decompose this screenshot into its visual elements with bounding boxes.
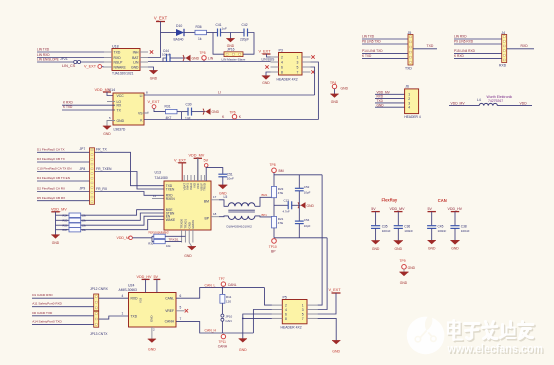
wire BP to choke: [219, 215, 228, 218]
U18 pin TXD: [104, 51, 112, 53]
svg-text:4: 4: [122, 294, 124, 298]
ground after C51: [218, 185, 227, 189]
wire D3 FlexRay0 CB TX: [37, 161, 90, 163]
resistor R25 10k: [56, 219, 70, 221]
P3 pin row 2: [271, 61, 279, 63]
svg-text:K TXD: K TXD: [362, 54, 372, 58]
svg-text:R11: R11: [226, 295, 232, 299]
svg-text:1k: 1k: [198, 37, 202, 41]
svg-text:J6: J6: [405, 85, 409, 89]
svg-text:6: 6: [285, 312, 287, 316]
svg-text:CANL: CANL: [165, 297, 174, 301]
ground U14 pin5: [107, 121, 115, 127]
svg-text:FR_TXEN: FR_TXEN: [96, 167, 112, 171]
svg-text:TX: TX: [117, 109, 122, 113]
wire P5 pin7 to gnd: [318, 318, 337, 340]
svg-text:VDD: VDD: [520, 101, 528, 105]
svg-text:CAN: CAN: [438, 198, 447, 203]
wire choke top to BM term: [255, 197, 274, 206]
svg-text:ERRN: ERRN: [191, 220, 195, 228]
svg-text:5: 5: [302, 312, 304, 316]
U13 bottom pin ERRN: [192, 230, 194, 243]
wire K TXD: [362, 58, 408, 60]
wire FR_RX: [95, 192, 165, 196]
svg-text:P5: P5: [283, 295, 287, 299]
svg-text:TP9: TP9: [400, 259, 406, 263]
svg-text:P15 LIN4 RXD: P15 LIN4 RXD: [454, 49, 476, 53]
svg-text:7: 7: [297, 70, 299, 74]
svg-text:10pF: 10pF: [304, 191, 311, 195]
svg-text:47E: 47E: [278, 221, 283, 225]
svg-text:www.elecfans.com: www.elecfans.com: [447, 342, 543, 356]
svg-text:RXD: RXD: [114, 56, 122, 60]
wire cap column: [298, 175, 300, 188]
testpoint TP6 K: [234, 118, 236, 121]
ground P3 pin8: [266, 72, 271, 76]
wire LIN RXD: [454, 38, 502, 40]
U13 top pin VIO: [193, 175, 195, 181]
svg-text:HEADER 4X2: HEADER 4X2: [277, 77, 298, 81]
jumper JP10 CAN termination: [221, 314, 224, 317]
svg-text:R31: R31: [165, 105, 171, 109]
resistor R24 10k: [56, 214, 70, 216]
ground under pull-up rail: [55, 232, 57, 235]
svg-text:FlexRay: FlexRay: [382, 198, 398, 203]
wire P15 LIN4 RXD: [454, 53, 502, 55]
wire LIN net: [148, 61, 271, 63]
svg-text:NSLP: NSLP: [114, 61, 124, 65]
testpoint TP8 BM: [272, 168, 277, 173]
wire K RXD: [62, 104, 115, 106]
wire P8 LIN5 TXD: [362, 43, 408, 45]
svg-text:VDD_MV: VDD_MV: [451, 101, 466, 105]
svg-text:BAS40: BAS40: [174, 37, 184, 41]
svg-text:4.7nF: 4.7nF: [283, 210, 290, 214]
svg-text:GND: GND: [192, 57, 200, 61]
wire choke bottom to BP term: [255, 216, 274, 217]
wire FR_TX: [95, 152, 165, 185]
capacitor C44 100nF: [163, 58, 167, 62]
svg-text:WAKE: WAKE: [166, 218, 175, 222]
svg-text:7: 7: [180, 317, 182, 321]
svg-text:5: 5: [180, 305, 182, 309]
X no-connect P3 pin6: [265, 65, 268, 68]
svg-text:GND: GND: [372, 247, 380, 251]
capacitor C41 1uF: [217, 29, 219, 37]
wire P3 pin3 to K net: [311, 62, 319, 120]
svg-text:K RXD: K RXD: [454, 54, 464, 58]
svg-text:HEADER 4X2: HEADER 4X2: [281, 326, 302, 330]
U13 top pin INH2: [190, 175, 192, 181]
svg-text:VREF: VREF: [165, 309, 174, 313]
svg-text:GND: GND: [239, 348, 247, 352]
svg-text:V_EXT: V_EXT: [259, 49, 272, 53]
wire LI net: [144, 94, 315, 96]
U13 bottom pin TRXD0: [181, 230, 183, 243]
U13 top pin INH1: [187, 175, 189, 181]
svg-text:GND: GND: [150, 77, 158, 81]
testpoint TP10 BP: [272, 239, 277, 244]
svg-text:GND: GND: [377, 103, 385, 107]
wire junction down to JP16 left: [213, 33, 224, 55]
watermark logo circle: [407, 314, 445, 355]
svg-text:8: 8: [281, 70, 283, 74]
svg-text:3: 3: [302, 308, 304, 312]
ground flag after C30: [206, 108, 211, 114]
svg-text:VS: VS: [138, 112, 143, 116]
svg-text:CANL: CANL: [228, 283, 237, 287]
jumper JP21: [74, 60, 77, 63]
wire CAN_H to P5 pin4: [253, 310, 272, 334]
svg-text:100nF: 100nF: [461, 229, 470, 233]
svg-text:GND: GND: [408, 266, 416, 270]
op IC U14 L9637D: [113, 93, 144, 125]
svg-text:AMIS-30663: AMIS-30663: [119, 288, 137, 292]
resistor R23 47E: [272, 186, 277, 197]
svg-text:TXD: TXD: [427, 44, 434, 48]
P3 pin row 4: [271, 71, 279, 73]
U18 pin NSLP: [104, 61, 112, 63]
svg-text:100nF: 100nF: [438, 229, 447, 233]
capacitor C52 10pF: [295, 187, 304, 189]
wire K RXD: [454, 58, 502, 60]
wire D4 FlexRay0 CB TX EN: [37, 180, 90, 182]
svg-text:P8 LIN5 TXD: P8 LIN5 TXD: [362, 39, 381, 43]
wire P5 pin8 junction: [243, 317, 272, 319]
svg-text:LIN RXD: LIN RXD: [37, 53, 50, 57]
svg-text:R36: R36: [196, 25, 202, 29]
capacitor C30 1nF: [187, 108, 189, 116]
U13 stub RXEN: [152, 198, 164, 200]
svg-text:GND: GND: [52, 241, 60, 245]
svg-text:TP7: TP7: [219, 277, 225, 281]
svg-text:CANH: CANH: [165, 320, 175, 324]
ground under U18: [148, 67, 154, 71]
ground flag mid node: [301, 202, 306, 208]
svg-text:TRXD1: TRXD1: [169, 237, 179, 241]
svg-text:GND: GND: [331, 100, 339, 104]
testpoint TP5 LIN: [203, 60, 205, 62]
svg-text:RX: RX: [117, 104, 122, 108]
wire D1 CAN0 RXD: [32, 297, 94, 299]
svg-text:GND: GND: [212, 110, 220, 114]
svg-text:GND: GND: [184, 254, 192, 258]
svg-text:C42: C42: [242, 23, 248, 27]
svg-text:2: 2: [285, 304, 287, 308]
svg-text:JP7: JP7: [80, 147, 86, 151]
svg-text:TJA1020/1021: TJA1020/1021: [112, 72, 134, 76]
svg-text:5V: 5V: [428, 207, 433, 211]
wire K net: [144, 119, 318, 121]
svg-text:1: 1: [302, 304, 304, 308]
svg-text:TJA1080: TJA1080: [155, 176, 168, 180]
svg-text:GND: GND: [332, 349, 340, 353]
svg-text:GND: GND: [428, 247, 436, 251]
svg-text:R24: R24: [63, 213, 68, 217]
svg-text:NWAKE: NWAKE: [114, 66, 127, 70]
ground left of P5: [239, 339, 247, 343]
svg-text:C30: C30: [186, 102, 192, 106]
capacitor C51 10nF: [218, 173, 227, 175]
U13 bottom pin TRXD1: [184, 230, 186, 243]
testpoint TP11 CANH: [222, 333, 224, 334]
svg-text:4: 4: [285, 308, 287, 312]
wire BM to choke: [219, 200, 228, 207]
svg-text:GND: GND: [148, 347, 156, 351]
svg-text:JP13 CNTX: JP13 CNTX: [90, 332, 108, 336]
jumper JP13 CNTX: [94, 311, 99, 327]
svg-text:C52: C52: [304, 185, 310, 189]
wire P3 pin5 to LI net: [311, 67, 315, 95]
svg-text:LIN TXD: LIN TXD: [362, 34, 375, 38]
svg-text:11: 11: [153, 194, 156, 198]
capacitor C13 4.7nF: [287, 201, 289, 209]
wire mid node: [274, 204, 288, 206]
ground U24: [151, 327, 153, 339]
wire LIN EN/SLOPE: [37, 61, 74, 63]
svg-text:FR_TX: FR_TX: [96, 148, 107, 152]
svg-text:LIN RXD: LIN RXD: [454, 34, 467, 38]
svg-text:RXD: RXD: [521, 44, 529, 48]
wire R30 to TRXD0: [165, 241, 181, 243]
wire CAN_L to P5 pin2: [265, 288, 272, 306]
wire D2 FlexRay0 CA RX: [37, 191, 90, 193]
svg-text:5V: 5V: [154, 275, 159, 279]
svg-text:1nF: 1nF: [185, 117, 191, 121]
wire R24 to U13: [81, 210, 164, 216]
svg-text:CAN_H: CAN_H: [205, 329, 217, 333]
svg-text:INH: INH: [133, 51, 139, 55]
svg-text:R25: R25: [63, 219, 68, 223]
svg-text:D0 CAN0 TXD: D0 CAN0 TXD: [32, 311, 53, 315]
svg-text:C10 FlexRay0 CA TX EN: C10 FlexRay0 CA TX EN: [37, 167, 72, 171]
svg-text:R30: R30: [148, 242, 154, 246]
svg-text:100nF: 100nF: [404, 229, 413, 233]
jumper strip JP7/JP8/JP9: [90, 148, 95, 205]
wire junction down to K: [181, 112, 183, 120]
svg-text:A11 SafetyPort0 RXD: A11 SafetyPort0 RXD: [32, 302, 62, 306]
svg-text:TP4: TP4: [330, 81, 336, 85]
resistor R29: [152, 235, 154, 237]
svg-text:GND: GND: [262, 81, 270, 85]
no-connect X on U18 INH: [150, 50, 153, 53]
U18 pin RXD: [104, 57, 112, 59]
wire CANL to CAN_L: [176, 288, 265, 299]
svg-text:8: 8: [285, 317, 287, 321]
svg-text:CAN: CAN: [225, 319, 231, 323]
svg-text:5: 5: [297, 65, 299, 69]
svg-text:GND: GND: [150, 316, 154, 322]
svg-text:VDD_HV: VDD_HV: [137, 275, 152, 279]
svg-text:4: 4: [408, 106, 410, 110]
svg-text:6: 6: [180, 294, 182, 298]
svg-text:D5 FlexRay0 CB RX: D5 FlexRay0 CB RX: [37, 196, 65, 200]
wire A14 SafetyPort0 TXD: [32, 323, 94, 325]
svg-text:17: 17: [213, 195, 217, 199]
testpoint TP7 CANL: [222, 286, 224, 287]
wire RXD to J6: [375, 98, 405, 100]
svg-text:74279267: 74279267: [488, 99, 503, 103]
svg-text:1uF: 1uF: [222, 27, 227, 31]
svg-text:100nF: 100nF: [382, 229, 391, 233]
svg-text:LI: LI: [218, 90, 221, 94]
svg-text:7: 7: [302, 317, 304, 321]
P5 pin row 1: [272, 304, 282, 306]
svg-text:JP12 CNRX: JP12 CNRX: [90, 287, 109, 291]
svg-text:VDD_MV: VDD_MV: [390, 207, 406, 211]
svg-text:TP8: TP8: [270, 163, 276, 167]
svg-text:D10: D10: [176, 24, 182, 28]
U13 bottom pin GND: [188, 230, 190, 243]
svg-text:K RXD: K RXD: [63, 100, 73, 104]
svg-text:V_EXT: V_EXT: [84, 65, 97, 69]
svg-text:P3: P3: [279, 48, 283, 52]
wire P5 pin6 to gnd: [243, 314, 272, 339]
svg-text:R26: R26: [63, 223, 68, 227]
svg-text:L5: L5: [224, 195, 228, 199]
wire BP bottom rail: [274, 237, 327, 239]
svg-text:GND: GND: [103, 132, 111, 136]
svg-text:GND: GND: [400, 281, 408, 285]
svg-text:U13: U13: [155, 170, 161, 174]
svg-text:3: 3: [297, 60, 299, 64]
svg-text:BM1: BM1: [262, 193, 268, 197]
wire TXD out: [413, 48, 437, 50]
svg-text:A14 SafetyPort0 TXD: A14 SafetyPort0 TXD: [32, 319, 62, 323]
svg-text:TXD: TXD: [114, 51, 121, 55]
U13 top pin TRXD: [204, 175, 206, 181]
resistor R21 47E: [272, 216, 277, 228]
svg-text:GND: GND: [307, 204, 315, 208]
svg-text:R27: R27: [63, 228, 68, 232]
wire P9 LIN5 RXD: [454, 43, 502, 45]
svg-text:HEADER 4: HEADER 4: [404, 115, 421, 119]
svg-text:1: 1: [122, 312, 124, 316]
svg-text:220pF: 220pF: [240, 38, 249, 42]
svg-text:1: 1: [297, 55, 299, 59]
capacitor C54 10pF: [295, 220, 304, 222]
diode D10 BAS40: [176, 29, 184, 36]
wire V_EXT to BAT: [148, 22, 161, 58]
svg-text:BAT: BAT: [132, 56, 138, 60]
svg-text:TRXD: TRXD: [203, 183, 207, 191]
svg-text:LIN EN/SLOPE: LIN EN/SLOPE: [37, 57, 59, 61]
svg-text:10nF: 10nF: [227, 176, 234, 180]
svg-text:P14 LIN4 TXD: P14 LIN4 TXD: [362, 49, 383, 53]
svg-text:VDD_HV: VDD_HV: [448, 207, 463, 211]
U13 pin 17 BM: [211, 199, 219, 201]
svg-text:D4 FlexRay0 CB TX EN: D4 FlexRay0 CB TX EN: [37, 176, 70, 180]
svg-text:TXD: TXD: [405, 66, 412, 70]
wire P14 LIN4 TXD: [362, 53, 408, 55]
X no-connect U24 VREF: [176, 310, 185, 312]
ground after C41: [230, 33, 232, 39]
wire LIN TXD: [362, 38, 408, 40]
wire R27 to U13: [81, 220, 164, 230]
svg-text:K TXD: K TXD: [63, 105, 73, 109]
svg-text:10pF: 10pF: [304, 224, 311, 228]
U13 top pin VBUF: [200, 175, 202, 181]
P5 pin row 4: [272, 317, 282, 319]
svg-text:V_EXT: V_EXT: [329, 288, 342, 292]
svg-text:GND: GND: [395, 247, 403, 251]
wire 5V to C51: [206, 168, 223, 174]
svg-text:JP16: JP16: [227, 48, 235, 52]
svg-text:V_EXT: V_EXT: [148, 100, 161, 104]
svg-text:U24: U24: [128, 283, 134, 287]
wire JP12 to U24 RXD: [99, 297, 129, 299]
svg-text:V_EXT: V_EXT: [154, 15, 168, 20]
U14 stub LO: [107, 101, 115, 103]
wire TXD to J6: [375, 102, 405, 104]
svg-text:2: 2: [281, 55, 283, 59]
svg-text:V33: V33: [139, 297, 143, 303]
svg-text:BP1: BP1: [262, 213, 268, 217]
resistor R27 10k: [56, 229, 70, 231]
svg-text:D3 FlexRay0 CB TX: D3 FlexRay0 CB TX: [37, 157, 65, 161]
wire BM top rail: [274, 174, 322, 176]
svg-text:VDD_MV: VDD_MV: [189, 153, 205, 157]
svg-text:LIN: LIN: [208, 56, 214, 60]
wire D5 FlexRay0 CB RX: [37, 200, 90, 202]
svg-text:LIN Master-Slave: LIN Master-Slave: [222, 58, 246, 62]
wire RXD out: [507, 48, 534, 50]
svg-text:100nF: 100nF: [162, 53, 171, 57]
watermark glyph shadow: [449, 322, 534, 341]
wire LIN RXD: [37, 57, 104, 59]
P5 pin row 3: [272, 313, 282, 315]
svg-text:BM: BM: [279, 169, 284, 173]
resistor R11 120: [222, 287, 224, 289]
svg-text:RXD: RXD: [499, 63, 507, 67]
U13 pin 18 BP: [211, 216, 219, 218]
svg-text:D1 FlexRay0 CA TX: D1 FlexRay0 CA TX: [37, 148, 65, 152]
svg-text:LIN TXD: LIN TXD: [37, 47, 50, 51]
wire C10 FlexRay0 CA TX EN: [37, 171, 90, 173]
svg-text:VCC: VCC: [117, 94, 125, 98]
svg-text:LIN_CS: LIN_CS: [62, 64, 76, 68]
svg-text:TP6: TP6: [230, 111, 236, 115]
svg-text:5V: 5V: [204, 158, 209, 162]
X P3 pin1: [311, 55, 314, 58]
wire VDD_MV to J6: [375, 93, 405, 95]
wire CANH to CAN_H: [176, 322, 253, 333]
capacitor C42 220pF: [243, 29, 245, 37]
svg-text:TP5: TP5: [200, 51, 206, 55]
P3 pin row 1: [271, 56, 279, 58]
wire A11 SafetyPort0 RXD: [32, 306, 94, 308]
svg-text:5V: 5V: [371, 207, 376, 211]
watermark chinese glyphs: [448, 321, 533, 340]
svg-text:TP10: TP10: [269, 245, 277, 249]
svg-text:BP: BP: [204, 216, 209, 220]
resistor R36 1k: [195, 30, 207, 34]
svg-text:6: 6: [281, 65, 283, 69]
wire K TXD: [62, 109, 115, 111]
svg-text:D2 FlexRay0 CA RX: D2 FlexRay0 CA RX: [37, 187, 65, 191]
testpoint TP4 GND: [332, 84, 336, 88]
U13 top pin VBAT: [183, 175, 185, 181]
wire R29 to TRXD1: [165, 235, 185, 237]
svg-text:18: 18: [213, 212, 217, 216]
resistor R26 10k: [56, 224, 70, 226]
svg-text:120: 120: [226, 299, 231, 303]
wire D0 CAN0 TXD: [32, 315, 94, 317]
svg-text:C54: C54: [304, 218, 310, 222]
svg-text:TXD: TXD: [131, 314, 138, 318]
svg-text:RXEN: RXEN: [166, 197, 176, 201]
wire FR_TXEN: [95, 172, 165, 190]
